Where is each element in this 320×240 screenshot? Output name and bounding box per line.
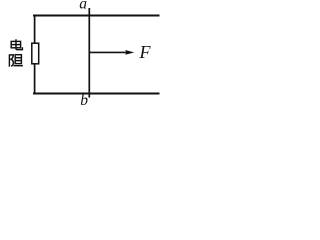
svg-text:F: F: [139, 42, 152, 62]
conducting rod ab: [88, 8, 90, 98]
svg-text:b: b: [80, 92, 88, 109]
wire left vertical upper segment: [34, 15, 36, 44]
label 电 (resistor text char 1): [11, 39, 22, 49]
svg-text:a: a: [79, 0, 87, 13]
wire top rail: [33, 15, 160, 17]
wire bottom rail: [33, 93, 160, 95]
label 阻 (resistor text char 2): [9, 54, 23, 66]
force arrow F shaft: [90, 51, 128, 53]
force arrow F head: [125, 50, 134, 55]
resistor 电阻 body: [32, 43, 39, 64]
wire left vertical lower segment: [34, 64, 36, 95]
